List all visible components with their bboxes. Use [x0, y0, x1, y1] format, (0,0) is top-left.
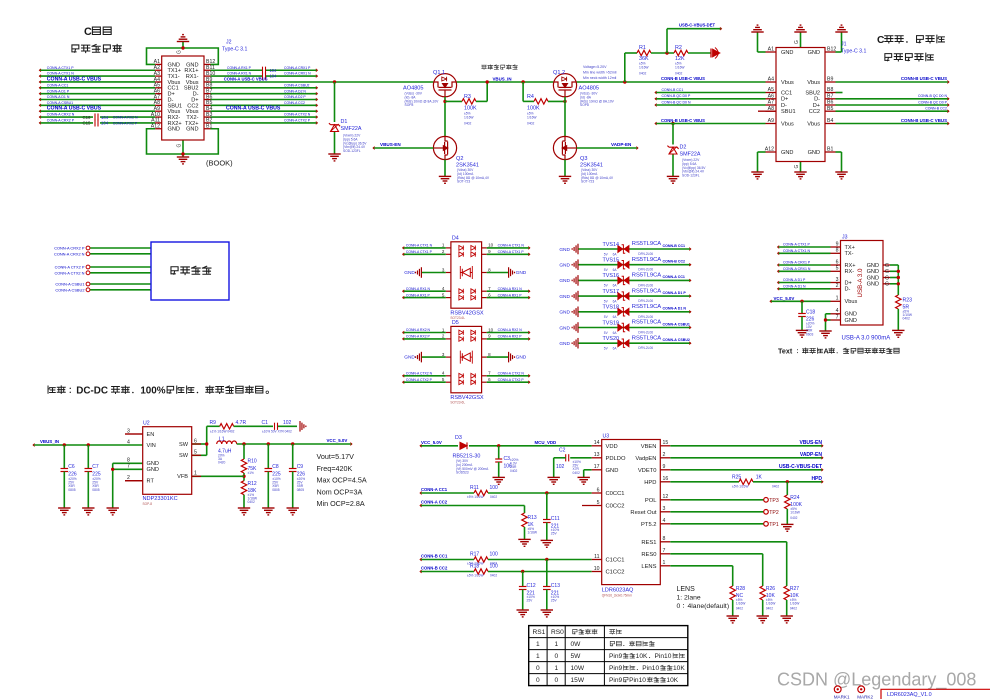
svg-text:Vbus: Vbus [781, 80, 794, 86]
svg-text:SOT-723: SOT-723 [581, 180, 594, 184]
svg-text:CONN-A CRX2 P: CONN-A CRX2 P [54, 246, 85, 251]
svg-text:R2: R2 [675, 45, 682, 51]
svg-text:Pin10: Pin10 [642, 665, 659, 672]
svg-text:CONN-A USB-C VBUS: CONN-A USB-C VBUS [224, 77, 268, 82]
svg-text:CONN-A CC2: CONN-A CC2 [421, 500, 448, 505]
svg-text:VADP-EN: VADP-EN [611, 142, 632, 147]
svg-text:1/16W: 1/16W [790, 601, 800, 605]
svg-text:SW: SW [179, 442, 189, 448]
svg-text:Q1.2: Q1.2 [553, 70, 565, 76]
svg-text:2: 2 [663, 452, 666, 458]
svg-text:Nom OCP=3A: Nom OCP=3A [317, 487, 363, 496]
svg-text:5W: 5W [571, 653, 582, 660]
svg-text:CONN-A USB-C VBUS: CONN-A USB-C VBUS [47, 76, 102, 82]
svg-text:TVS19: TVS19 [603, 320, 619, 326]
svg-text:TVS14: TVS14 [603, 242, 619, 248]
svg-text:CONN-A CC1: CONN-A CC1 [47, 83, 69, 87]
svg-text:GND: GND [168, 127, 180, 133]
svg-text:Vout=5.17V: Vout=5.17V [317, 452, 355, 461]
svg-text:1: 1 [536, 653, 540, 660]
svg-text:LENS: LENS [641, 564, 656, 570]
svg-text:Q3: Q3 [580, 156, 587, 162]
svg-text:±5% 1/16W: ±5% 1/16W [467, 495, 483, 499]
svg-text:SW: SW [179, 453, 189, 459]
svg-text:GND: GND [516, 355, 527, 361]
svg-text:GND: GND [845, 312, 857, 318]
svg-text:102: 102 [556, 464, 565, 470]
svg-text:D+: D+ [845, 280, 852, 286]
svg-text:1/16W: 1/16W [790, 511, 800, 515]
svg-text:10: 10 [488, 243, 494, 248]
svg-text:RS1: RS1 [533, 629, 546, 636]
svg-text:CONN-A CTX1 N: CONN-A CTX1 N [47, 72, 75, 76]
svg-text:1: 1 [194, 471, 197, 477]
svg-text:1/16W: 1/16W [639, 65, 649, 69]
svg-text:HPD: HPD [811, 476, 822, 482]
svg-text:0805: 0805 [92, 488, 100, 492]
svg-text:15W: 15W [571, 677, 585, 684]
svg-text:CONN-A CRX2 N: CONN-A CRX2 N [47, 113, 75, 117]
svg-text:RS5TL9CA: RS5TL9CA [632, 273, 661, 279]
svg-text:2: 2 [127, 475, 130, 481]
svg-text:HPD: HPD [644, 480, 656, 486]
svg-text:CONN-A RX1 P: CONN-A RX1 P [406, 293, 431, 297]
svg-text:CONN-A CTX1 P: CONN-A CTX1 P [498, 250, 525, 254]
svg-text:TP1: TP1 [769, 522, 779, 528]
svg-text:1K: 1K [756, 474, 763, 480]
svg-text:C2: C2 [559, 447, 566, 453]
svg-text:GND: GND [404, 355, 415, 361]
svg-text:C7: C7 [92, 464, 99, 470]
svg-text:0420: 0420 [218, 461, 226, 465]
svg-text:CONN-A CC2: CONN-A CC2 [284, 101, 305, 105]
svg-text:25V: 25V [551, 599, 558, 603]
svg-text:1/16W: 1/16W [766, 601, 776, 605]
svg-text:4.7R: 4.7R [236, 420, 247, 426]
svg-text:CONN-A CTX1 P: CONN-A CTX1 P [783, 243, 811, 247]
svg-text:SOD-123FL: SOD-123FL [343, 149, 361, 153]
svg-text:VCC_5.0V: VCC_5.0V [421, 440, 442, 445]
svg-text:4: 4 [836, 308, 839, 314]
svg-text:0402: 0402 [510, 469, 518, 473]
svg-text:0402: 0402 [772, 485, 779, 489]
svg-text:D-: D- [814, 97, 820, 103]
svg-text:TVS15: TVS15 [603, 258, 619, 264]
svg-text:R17: R17 [470, 552, 479, 558]
svg-text:Vbus: Vbus [807, 121, 820, 127]
svg-text:CONN-A RX2 P: CONN-A RX2 P [498, 335, 523, 339]
svg-text:CONN-A CSBU1: CONN-A CSBU1 [55, 282, 84, 287]
svg-text:100: 100 [490, 485, 499, 491]
svg-text:C0CC2: C0CC2 [606, 504, 625, 510]
svg-text:LENS: LENS [677, 586, 696, 593]
svg-text:±10% 50V X7R 0402: ±10% 50V X7R 0402 [262, 429, 292, 433]
svg-text:1: 2lane: 1: 2lane [677, 595, 701, 602]
svg-text:SBU1: SBU1 [781, 109, 796, 115]
svg-text:D1: D1 [341, 119, 348, 125]
svg-text:0402: 0402 [766, 607, 773, 611]
svg-text:GND: GND [559, 247, 570, 253]
svg-text:6: 6 [597, 487, 600, 493]
svg-text:MARK2: MARK2 [857, 694, 873, 699]
svg-text:G: G [885, 282, 889, 288]
svg-text:R27: R27 [790, 586, 799, 592]
svg-text:Reset Out: Reset Out [630, 510, 656, 516]
svg-text:104: 104 [270, 68, 278, 73]
svg-text:C11: C11 [551, 516, 560, 522]
svg-text:CONN-B QC D0 P: CONN-B QC D0 P [918, 100, 947, 104]
svg-text:D+: D+ [781, 97, 788, 103]
svg-text:C8: C8 [272, 464, 279, 470]
svg-text:A12: A12 [765, 147, 774, 153]
svg-text:GND: GND [559, 325, 570, 331]
svg-text:17: 17 [594, 464, 600, 470]
svg-text:13: 13 [594, 452, 600, 458]
svg-text:R25: R25 [732, 474, 741, 480]
svg-text:Pin10: Pin10 [629, 677, 646, 684]
svg-text:1/16W: 1/16W [675, 65, 685, 69]
svg-text:25V: 25V [551, 532, 558, 536]
svg-text:TP2: TP2 [769, 510, 779, 516]
svg-text:TVS16: TVS16 [603, 273, 619, 279]
svg-text:G: G [794, 40, 800, 44]
svg-text:U2: U2 [143, 421, 150, 427]
svg-text:102: 102 [283, 420, 292, 426]
svg-text:SOP8: SOP8 [405, 103, 414, 107]
svg-text:0402: 0402 [790, 607, 797, 611]
svg-text:±5% 1/16W: ±5% 1/16W [467, 573, 483, 577]
svg-text:Text: Text [778, 347, 793, 356]
svg-text:GND: GND [559, 310, 570, 316]
svg-text:GND: GND [867, 263, 879, 269]
svg-text:GND: GND [147, 467, 159, 473]
svg-text:MCU_VDD: MCU_VDD [535, 440, 557, 445]
svg-text:CC2: CC2 [809, 109, 820, 115]
svg-text:B8: B8 [827, 87, 833, 93]
svg-text:RS5TL9CA: RS5TL9CA [632, 320, 661, 326]
svg-text:RS5TL9CA: RS5TL9CA [632, 335, 661, 341]
svg-text:CONN-A CTX2 P: CONN-A CTX2 P [284, 119, 311, 123]
svg-text:1/16W: 1/16W [736, 601, 746, 605]
svg-text:GND: GND [867, 275, 879, 281]
svg-text:J2: J2 [226, 40, 232, 46]
svg-text:Q1.1: Q1.1 [433, 70, 445, 76]
svg-text:CONN-A CRX2 N: CONN-A CRX2 N [54, 251, 85, 256]
svg-text:A5: A5 [768, 87, 774, 93]
svg-text:RS5TL9CA: RS5TL9CA [632, 257, 661, 263]
svg-text:G: G [885, 263, 889, 269]
svg-text:TX+: TX+ [845, 245, 855, 251]
svg-text:CONN-A CTX2 N: CONN-A CTX2 N [406, 372, 433, 376]
svg-text:1: 1 [555, 665, 559, 672]
svg-text:VBUS-EN: VBUS-EN [380, 142, 401, 147]
svg-text:CONN-A RX2 N: CONN-A RX2 N [406, 328, 431, 332]
svg-text:CONN-A D1 P: CONN-A D1 P [663, 291, 687, 295]
svg-text:Freq=420K: Freq=420K [317, 464, 353, 473]
svg-text:VBUS_IN: VBUS_IN [493, 76, 512, 81]
svg-text:GND: GND [867, 269, 879, 275]
svg-text:B9: B9 [827, 77, 833, 83]
svg-text:CONN-B USB-C VBUS: CONN-B USB-C VBUS [661, 76, 705, 81]
svg-text:CONN-A D1 P: CONN-A D1 P [47, 89, 70, 93]
svg-text:DFN-2L06: DFN-2L06 [638, 283, 653, 287]
svg-text:GND: GND [516, 270, 527, 276]
svg-text:1: 1 [836, 296, 839, 302]
svg-text:SOT23-6L: SOT23-6L [450, 400, 465, 404]
svg-text:3: 3 [127, 428, 130, 434]
svg-text:A12: A12 [151, 124, 160, 130]
svg-text:RES0: RES0 [641, 552, 656, 558]
svg-text:±5% 1/16W: ±5% 1/16W [732, 485, 748, 489]
svg-text:0402: 0402 [527, 122, 535, 126]
svg-text:0402: 0402 [675, 72, 683, 76]
svg-text:3: 3 [663, 506, 666, 512]
svg-text:0402: 0402 [464, 122, 472, 126]
svg-text:VFB: VFB [177, 474, 188, 480]
svg-text:VCC_5.0V: VCC_5.0V [774, 296, 795, 301]
svg-text:4: 4 [663, 518, 666, 524]
svg-text:CONN-A USB-C VBUS: CONN-A USB-C VBUS [47, 106, 102, 112]
svg-text:CONN-A CRX1 P: CONN-A CRX1 P [284, 66, 311, 70]
svg-text:RS0: RS0 [551, 629, 564, 636]
svg-text:0603: 0603 [806, 332, 814, 336]
svg-text:(BOOK): (BOOK) [206, 159, 233, 168]
svg-text:R26: R26 [766, 586, 775, 592]
svg-text:GND: GND [559, 263, 570, 269]
svg-text:0402: 0402 [490, 573, 497, 577]
svg-text:1/16W: 1/16W [527, 115, 537, 119]
svg-text:R24: R24 [790, 495, 799, 501]
svg-text:10: 10 [594, 566, 600, 572]
svg-text:104: 104 [101, 121, 109, 126]
svg-text:1/16W: 1/16W [464, 115, 474, 119]
svg-text:CONN-A CRX2 P: CONN-A CRX2 P [47, 119, 75, 123]
svg-text:D-: D- [781, 103, 787, 109]
svg-text:C6: C6 [68, 464, 75, 470]
svg-text:VBUS_IN: VBUS_IN [40, 439, 59, 444]
svg-text:5: 5 [194, 450, 197, 456]
svg-text:10: 10 [488, 327, 494, 332]
svg-text:CSDN @Legendary_008: CSDN @Legendary_008 [777, 670, 976, 691]
svg-text:10K: 10K [636, 653, 648, 660]
svg-text:GND: GND [781, 150, 793, 156]
svg-text:Min neck width 12mil: Min neck width 12mil [583, 76, 617, 80]
svg-text:SOT-723: SOT-723 [457, 180, 470, 184]
svg-text:A: A [823, 347, 828, 356]
svg-text:U3: U3 [603, 434, 610, 440]
svg-text:±1% 1/16W 0402: ±1% 1/16W 0402 [210, 429, 235, 433]
svg-text:CONN-A D1 N: CONN-A D1 N [663, 307, 687, 311]
svg-text:R10: R10 [248, 459, 257, 465]
svg-text:C: C [84, 26, 92, 38]
svg-text:Max OCP=4.5A: Max OCP=4.5A [317, 476, 367, 485]
svg-text:9: 9 [836, 241, 839, 247]
svg-text:CONN-A D2 P: CONN-A D2 P [284, 95, 306, 99]
svg-text:CONN-A CTX2 P: CONN-A CTX2 P [498, 378, 525, 382]
svg-text:RT: RT [147, 479, 155, 485]
svg-text:VBEN: VBEN [641, 444, 657, 450]
svg-text:CONN-A CRX1 P: CONN-A CRX1 P [783, 261, 811, 265]
svg-text:CONN-A CTX2 P: CONN-A CTX2 P [55, 265, 85, 270]
svg-text:L1: L1 [219, 437, 225, 443]
svg-text:J3: J3 [842, 235, 848, 241]
svg-text:DFN-2L06: DFN-2L06 [638, 299, 653, 303]
svg-text:A9: A9 [768, 118, 774, 124]
svg-text:PDLDO: PDLDO [606, 456, 626, 462]
svg-text:B4: B4 [827, 118, 833, 124]
svg-text:100%: 100% [140, 386, 165, 397]
svg-text:CONN-A CTX2 N: CONN-A CTX2 N [284, 113, 311, 117]
svg-text:G: G [177, 50, 183, 54]
svg-text:G: G [794, 165, 800, 169]
svg-text:CONN-A CRX1 N: CONN-A CRX1 N [783, 267, 811, 271]
svg-text:4: 4 [127, 439, 130, 445]
svg-text:CONN-A CTX2 P: CONN-A CTX2 P [406, 378, 433, 382]
svg-text:CONN-A CRX1 N: CONN-A CRX1 N [284, 72, 311, 76]
svg-text:GND: GND [186, 127, 198, 133]
svg-text:CONN-A D1 N: CONN-A D1 N [783, 284, 806, 288]
svg-text:104: 104 [270, 74, 278, 79]
svg-text:C0CC1: C0CC1 [606, 491, 625, 497]
svg-text:SMF22A: SMF22A [341, 126, 362, 132]
svg-text:C15: C15 [83, 121, 91, 126]
svg-text:CONN-A CC1: CONN-A CC1 [663, 275, 685, 279]
svg-text:4lane(default): 4lane(default) [688, 603, 730, 610]
svg-text:SOP-8: SOP-8 [143, 502, 153, 506]
svg-text:C16: C16 [83, 115, 91, 120]
svg-text:0402: 0402 [736, 607, 743, 611]
svg-text:R3: R3 [464, 94, 471, 100]
svg-text:GND: GND [606, 468, 619, 474]
svg-text:7: 7 [663, 548, 666, 554]
svg-text:CC1: CC1 [781, 90, 792, 96]
svg-text:G: G [885, 269, 889, 275]
svg-text:TVS17: TVS17 [603, 289, 619, 295]
svg-text:CONN-A CTX2 N: CONN-A CTX2 N [498, 372, 525, 376]
svg-text:CONN-A CTX1 P: CONN-A CTX1 P [406, 250, 433, 254]
svg-text:B6: B6 [827, 100, 833, 106]
svg-text:0402: 0402 [790, 516, 797, 520]
svg-text:12: 12 [663, 494, 669, 500]
svg-text:SOP8: SOP8 [580, 103, 589, 107]
svg-text:Pin9: Pin9 [609, 677, 623, 684]
svg-text:TVS20: TVS20 [603, 336, 619, 342]
svg-text:0W: 0W [571, 641, 582, 648]
svg-text:Pin10: Pin10 [655, 653, 672, 660]
svg-text:TX-: TX- [845, 251, 854, 257]
svg-text:GND: GND [781, 50, 793, 56]
svg-text:CONN-B USB-C VBUS: CONN-B USB-C VBUS [901, 118, 947, 123]
svg-text:Q2: Q2 [456, 156, 463, 162]
svg-text:CONN-A RX1 N: CONN-A RX1 N [227, 72, 252, 76]
svg-text:CONN-A CSBU2: CONN-A CSBU2 [284, 83, 310, 87]
svg-text:Voltage=5.20V: Voltage=5.20V [583, 65, 607, 69]
svg-text:CONN-B USB-C VBUS: CONN-B USB-C VBUS [901, 76, 947, 81]
svg-text:MARK1: MARK1 [834, 694, 850, 699]
svg-text:TVS18: TVS18 [603, 305, 619, 311]
svg-text:CONN-A RX2 N: CONN-A RX2 N [498, 328, 523, 332]
svg-text:CONN-A RX1 N: CONN-A RX1 N [406, 287, 431, 291]
svg-text:104: 104 [101, 115, 109, 120]
svg-text:7: 7 [127, 464, 130, 470]
svg-text:CONN-A RX1 N: CONN-A RX1 N [498, 287, 523, 291]
svg-text:11: 11 [594, 554, 599, 560]
svg-text:10W: 10W [571, 665, 585, 672]
svg-text:QFN16_3x3x0.75mm: QFN16_3x3x0.75mm [602, 594, 633, 598]
svg-text:R12: R12 [248, 481, 257, 487]
svg-text:VDET0: VDET0 [638, 468, 657, 474]
svg-text:1: 1 [663, 560, 666, 566]
svg-text:CONN-B QC D0 N: CONN-B QC D0 N [662, 100, 691, 104]
svg-text:RS5TL9CA: RS5TL9CA [632, 288, 661, 294]
svg-text:DC-DC: DC-DC [76, 386, 108, 397]
svg-text:RX+: RX+ [845, 263, 856, 269]
svg-text:D4: D4 [452, 235, 459, 241]
svg-text:1: 1 [555, 641, 559, 648]
svg-text:8: 8 [663, 536, 666, 542]
svg-text:C12: C12 [527, 583, 536, 589]
svg-text:RS5TL9CA: RS5TL9CA [632, 241, 661, 247]
svg-text:CONN-A RX2 N: CONN-A RX2 N [113, 116, 138, 120]
svg-text:R18: R18 [470, 564, 479, 570]
svg-text:CONN-A CSBU2: CONN-A CSBU2 [663, 338, 690, 342]
svg-text:CONN-A CTX1 N: CONN-A CTX1 N [498, 244, 525, 248]
svg-text:0402: 0402 [573, 471, 581, 475]
svg-text:C: C [877, 35, 885, 46]
svg-text:TP3: TP3 [769, 498, 779, 504]
svg-text:CONN-A D2 N: CONN-A D2 N [284, 89, 306, 93]
svg-text:0805: 0805 [297, 488, 305, 492]
svg-text:±1%: ±1% [248, 471, 255, 475]
svg-text:GND: GND [808, 150, 820, 156]
svg-text:Min line width >52mil: Min line width >52mil [583, 71, 617, 75]
svg-text:CONN-B CC1: CONN-B CC1 [663, 244, 686, 248]
svg-text:5: 5 [597, 500, 600, 506]
svg-text:A1: A1 [768, 47, 774, 53]
svg-text:VadpEN: VadpEN [635, 456, 656, 462]
svg-text:GND: GND [559, 294, 570, 300]
svg-text:SOD523: SOD523 [456, 471, 469, 475]
svg-text:VCC_5.0V: VCC_5.0V [327, 438, 348, 443]
svg-text:1: 1 [536, 641, 540, 648]
svg-text:C1: C1 [262, 420, 269, 426]
svg-text:10K: 10K [666, 677, 678, 684]
svg-text:CONN-A D1 P: CONN-A D1 P [783, 278, 806, 282]
svg-text:0402: 0402 [639, 72, 647, 76]
svg-text:0: 0 [536, 677, 540, 684]
svg-text:B5: B5 [827, 106, 833, 112]
svg-text:CONN-B CC2: CONN-B CC2 [663, 260, 686, 264]
svg-text:G: G [177, 144, 183, 148]
svg-text:CONN-B CC2: CONN-B CC2 [421, 566, 448, 571]
svg-text:RX-: RX- [845, 269, 855, 275]
svg-text:CONN-B QC D0 P: CONN-B QC D0 P [662, 94, 691, 98]
svg-text:D-: D- [845, 287, 851, 293]
svg-text:R28: R28 [736, 586, 745, 592]
svg-text:1/16W: 1/16W [528, 530, 538, 534]
svg-text:PT5.2: PT5.2 [641, 522, 656, 528]
svg-text:C9: C9 [297, 464, 304, 470]
svg-text:C1CC2: C1CC2 [606, 570, 625, 576]
svg-text:VBUS-EN: VBUS-EN [799, 440, 822, 446]
svg-text:CONN-A RX1 P: CONN-A RX1 P [498, 293, 523, 297]
svg-text:Pin9: Pin9 [609, 653, 623, 660]
svg-text:CONN-B CC2: CONN-B CC2 [925, 107, 947, 111]
svg-text:100: 100 [490, 564, 499, 570]
svg-text:USB-C-VBUS-DET: USB-C-VBUS-DET [779, 464, 822, 470]
svg-text:Pin9: Pin9 [609, 665, 623, 672]
svg-text:R11: R11 [470, 485, 479, 491]
